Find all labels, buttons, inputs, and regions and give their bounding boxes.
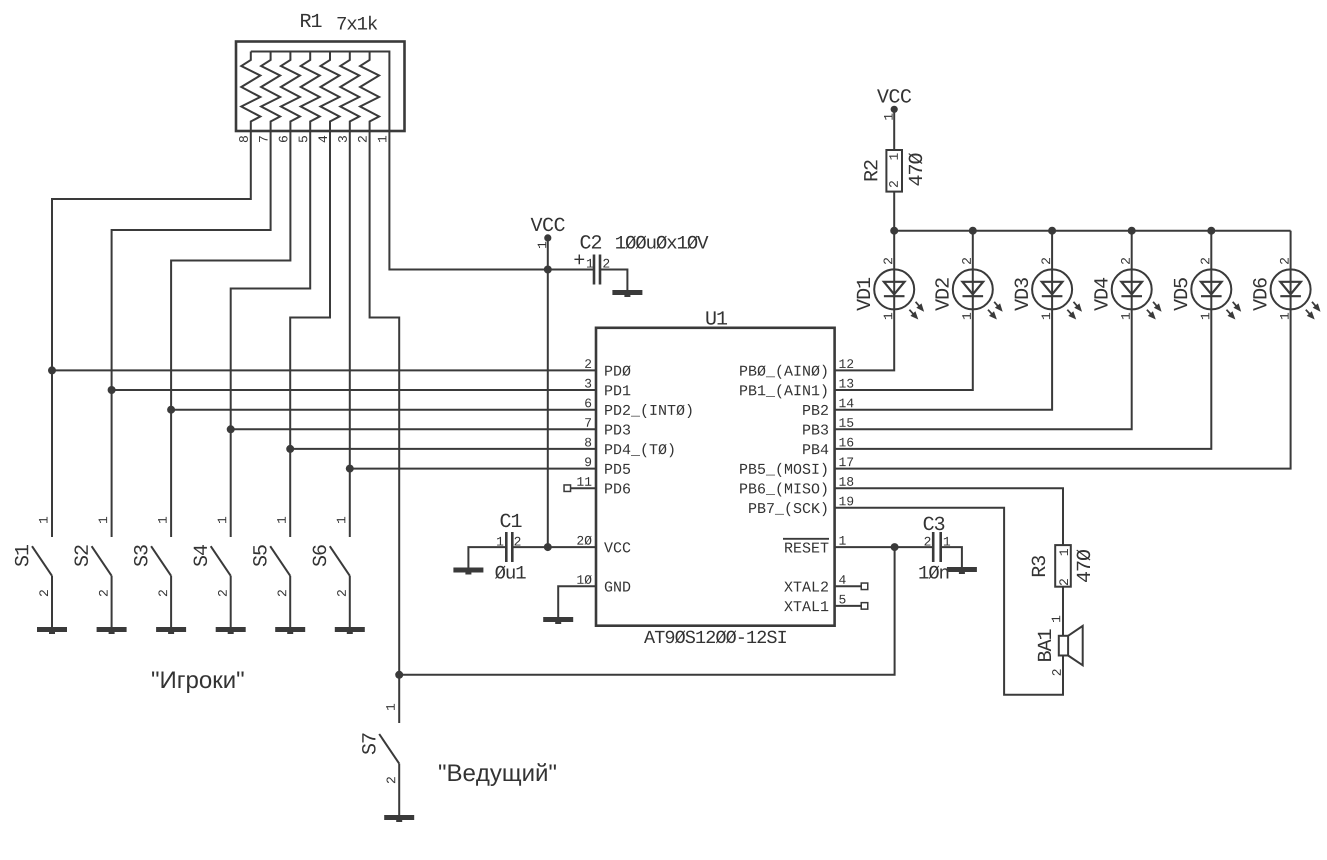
ground below C2 [612, 290, 642, 295]
S3 pin 1 label [158, 517, 167, 523]
capacitor C1 plates [505, 532, 508, 562]
R3 pin 2 label [1059, 579, 1068, 585]
U1 pin number 17 [839, 458, 853, 467]
junction node LED bus / VD1 [890, 227, 898, 235]
U1 pin name XTAL1 [784, 601, 828, 611]
junction node LED bus / VD4 [1128, 227, 1136, 235]
R1 resistor element 4 [321, 52, 340, 132]
C2 value label [616, 236, 708, 249]
R1 value label 7x1k [337, 16, 377, 30]
U1 pin number 6 [585, 399, 591, 408]
switch S7 [379, 734, 399, 764]
C1 reference label [501, 514, 522, 528]
VD5 pin 2 label [1201, 258, 1210, 264]
wire R1 pin 7 to switch S2 [112, 131, 271, 537]
U1 pin number 8 [585, 438, 591, 447]
switch S3 [151, 546, 171, 576]
R1 resistor element 5 [301, 52, 320, 132]
ground below S5 [275, 627, 305, 632]
VD2 pin 2 label [962, 258, 971, 264]
U1 pin name PD6 [605, 483, 630, 493]
R1 resistor element 2 [360, 52, 379, 132]
LED VD1 [893, 231, 895, 270]
U1 part name AT90S1200-12SI [644, 630, 786, 643]
U1 pin name PD4_(T0) [605, 443, 673, 457]
wire R3 to BA1 [1062, 587, 1064, 636]
wire VD4 to U1 PB3 [835, 309, 1132, 429]
U1 pin number 20 [577, 536, 591, 545]
ground below S6 [335, 627, 365, 632]
U1 pin number 5 [839, 595, 845, 604]
R1 pin number 5 [299, 136, 308, 142]
VD4 pin 1 label [1121, 313, 1130, 319]
switch S6 [330, 546, 350, 576]
wire C1 left to ground [468, 547, 506, 567]
U1 pin name PB2 [803, 405, 828, 415]
wire R2 to LED bus [893, 192, 895, 231]
junction node PD3 [227, 425, 235, 433]
wire R1 pin 2 to switch S7 / node [370, 131, 400, 723]
wire PD2 row to U1 [171, 409, 596, 411]
U1 pin name PD5 [605, 464, 630, 474]
junction node RESET [891, 543, 899, 551]
junction node VCC rail / C2 [544, 266, 552, 274]
wire PD3 row to U1 [231, 428, 596, 430]
ground below C3 [947, 567, 977, 572]
ground below S1 [37, 627, 67, 632]
ground below S3 [156, 627, 186, 632]
wire VD5 to U1 PB4 [835, 309, 1212, 449]
S5 pin 1 label [277, 517, 286, 523]
U1 pin name PB4 [803, 444, 828, 454]
U1 pin number 15 [839, 418, 853, 427]
S2 pin 2 label [99, 590, 108, 596]
S7 pin 1 label [386, 704, 395, 710]
S6 pin 2 label [337, 590, 346, 596]
U1 pin name PB7_(SCK) [749, 502, 826, 516]
switch S1 [32, 546, 52, 576]
S4 pin 1 label [218, 517, 227, 523]
junction node PD5 [346, 465, 354, 473]
R1 pin number 3 [338, 136, 347, 142]
R1 reference label [301, 14, 321, 27]
wire VCC to R2 [893, 109, 895, 150]
S2 pin 1 label [99, 517, 108, 523]
R3 value 470 [1076, 550, 1090, 582]
C1 pin 2 label [515, 537, 521, 546]
switch S5 [270, 546, 290, 576]
R1 resistor element 6 [281, 52, 300, 132]
U1 pin name XTAL2 [784, 581, 828, 591]
ground below U1 GND [543, 617, 573, 622]
U1 PD6 no-connect stub [571, 487, 597, 489]
C2 pin 2 label [603, 259, 609, 268]
IC U1 box [596, 328, 835, 626]
ground below S4 [216, 627, 246, 632]
wire R1 pin 1 to VCC rail [389, 131, 593, 270]
S5 pin 2 label [278, 590, 287, 596]
wire S7 node to RESET node [399, 547, 894, 675]
ground below S2 [97, 627, 127, 632]
R1 pin number 7 [259, 136, 268, 142]
BA1 pin 1 label [1052, 616, 1061, 622]
U1 pin name PD3 [605, 424, 630, 434]
wire C1 to U1 VCC pin [512, 546, 596, 548]
wire C3 to ground [941, 547, 962, 567]
U1 pin number 7 [585, 418, 591, 427]
wire U1 PB6 to R3 [835, 488, 1063, 545]
U1 pin name PB3 [803, 424, 828, 434]
R3 pin 1 label [1059, 549, 1068, 555]
U1 XTAL1 no-connect stub [835, 605, 862, 607]
wire VD3 to U1 PB2 [835, 309, 1053, 409]
wire VD2 to U1 PB1 [835, 309, 973, 390]
S1 pin 2 label [39, 590, 48, 596]
U1 pin number 10 [577, 575, 591, 584]
S7 pin 2 label [387, 777, 396, 783]
U1 pin number 13 [839, 379, 853, 388]
junction node S7/RESET net [395, 671, 403, 679]
VCC symbol pin 1 label [538, 242, 547, 248]
VD3 pin 1 label [1042, 313, 1051, 319]
C3 reference label [924, 517, 945, 531]
C2 reference label [581, 235, 601, 249]
R2 pin 1 label [889, 153, 898, 159]
wire U1 RESET to C3 [835, 546, 934, 548]
capacitor C2 plates [593, 255, 596, 285]
junction node LED bus / VD3 [1048, 227, 1056, 235]
R1 internal common bus to pin 1 [251, 52, 390, 132]
U1 pin number 11 [577, 477, 591, 486]
LED VD2 [972, 231, 974, 270]
U1 pin number 16 [839, 438, 853, 447]
U1 pin name PB6_(MISO) [740, 483, 826, 497]
R1 resistor element 3 [340, 52, 359, 132]
resistor R3 [1055, 545, 1071, 587]
wire PD1 row to U1 [112, 389, 596, 391]
C3 value label [919, 566, 948, 579]
junction node PD2 [167, 406, 175, 414]
wire PD4 row to U1 [290, 448, 596, 450]
U1 pin name PB5_(MOSI) [740, 463, 826, 477]
wire R1 pin 4 to switch S5 [290, 131, 330, 537]
R1 pin number 6 [279, 136, 288, 142]
VD3 pin 2 label [1041, 258, 1050, 264]
C1 value label [495, 566, 526, 579]
C3 pin 1 label [944, 537, 950, 546]
wire VD6 to U1 PB5 [835, 309, 1291, 468]
LED supply bus wire [894, 230, 1290, 232]
junction node LED bus / VD5 [1207, 227, 1215, 235]
C2 pin 1 label [587, 259, 593, 268]
junction node PD0 [48, 366, 56, 374]
S6 pin 1 label [337, 517, 346, 523]
U1 pin number 1 (RESET) [839, 536, 845, 545]
U1 pin name RESET with overline [785, 542, 828, 552]
R1 resistor element 8 [241, 52, 260, 132]
wire R1 pin 3 to switch S6 [349, 131, 351, 537]
U1 pin name PB1_(AIN1) [740, 384, 826, 398]
U1 pin name PD0 [605, 365, 630, 375]
R1 resistor element 7 [261, 52, 280, 132]
VD5 pin 1 label [1201, 313, 1210, 319]
U1 pin number 14 [839, 399, 853, 408]
U1 XTAL2 no-connect stub [835, 585, 862, 587]
wire U1 PB7 to BA1 pin 2 [835, 508, 1063, 695]
VD1 pin 1 label [884, 313, 893, 319]
LED VD4 [1131, 231, 1133, 270]
VD6 pin 1 label [1280, 313, 1289, 319]
wire R1 pin 5 to switch S4 [231, 131, 311, 537]
R1 pin number 2 [358, 136, 367, 142]
R1 pin number 1 [378, 136, 387, 142]
capacitor C3 plates [932, 532, 935, 562]
C3 pin 2 label [925, 537, 931, 546]
U1 pin number 12 [839, 359, 853, 368]
resistor network R1 box [236, 42, 405, 132]
speaker BA1 [1059, 636, 1068, 656]
U1 pin number 4 [839, 575, 845, 584]
R2 pin 2 label [889, 181, 898, 187]
BA1 pin 2 label [1052, 669, 1061, 675]
wire U1 GND pin to ground [558, 586, 596, 617]
U1 pin name GND [605, 581, 630, 591]
U1 pin number 2 [585, 359, 591, 368]
S4 pin 2 label [218, 590, 227, 596]
wire R1 pin 8 to switch S1 [52, 131, 251, 537]
U1 pin name PB0_(AIN0) [740, 365, 826, 379]
S1 pin 1 label [39, 517, 48, 523]
junction node PD1 [108, 386, 116, 394]
caption "Игроки" [152, 671, 244, 692]
U1 reference label [706, 311, 727, 324]
S3 pin 2 label [158, 590, 167, 596]
U1 pin number 19 [839, 497, 853, 506]
caption "Ведущий" [439, 763, 556, 786]
wire R1 pin 6 to switch S3 [171, 131, 290, 537]
VD1 pin 2 label [884, 258, 893, 264]
wire PD5 row to U1 [350, 468, 596, 470]
VD4 pin 2 label [1121, 258, 1130, 264]
switch S4 [211, 546, 231, 576]
resistor R2 [886, 150, 902, 192]
U1 pin number 3 [585, 379, 591, 388]
power symbol VCC (left) [531, 218, 565, 232]
R2 value 470 [908, 153, 922, 185]
R1 pin number 4 [318, 136, 327, 142]
VD6 pin 2 label [1280, 258, 1289, 264]
R1 pin number 8 [239, 136, 248, 142]
ground below C1 [453, 568, 483, 573]
VD2 pin 1 label [962, 313, 971, 319]
LED VD3 [1051, 231, 1053, 270]
LED VD5 [1210, 231, 1212, 270]
wire VD1 to U1 PB0 [835, 309, 895, 370]
C1 pin 1 label [497, 537, 503, 546]
ground below S7 [384, 815, 414, 820]
power symbol VCC (right) [877, 89, 911, 103]
LED VD6 [1290, 231, 1292, 270]
wire PD0 row to U1 [52, 369, 596, 371]
U1 pin name PD2_(INT0) [605, 404, 691, 418]
C2 polarity + [574, 254, 584, 264]
junction node LED bus / VD2 [969, 227, 977, 235]
switch S2 [92, 546, 112, 576]
wire C2 to ground [600, 270, 627, 291]
junction node VCC pin row [544, 543, 552, 551]
U1 pin name VCC [604, 542, 630, 552]
U1 pin number 9 [585, 457, 591, 466]
VCC right pin 1 label [884, 114, 893, 120]
U1 pin name PD1 [605, 385, 630, 395]
junction node PD4 [286, 445, 294, 453]
U1 pin number 18 [839, 477, 853, 486]
